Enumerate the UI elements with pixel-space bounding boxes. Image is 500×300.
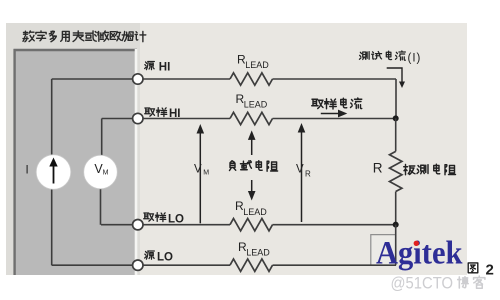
Agitek logo <box>376 236 463 272</box>
terminal sense LO <box>133 220 143 230</box>
terminal source LO <box>133 260 143 270</box>
title 数字多用表或微欧姆计 <box>23 31 146 42</box>
resistor R_LEAD 4 zigzag <box>230 259 273 271</box>
svg-text:V: V <box>194 164 202 176</box>
svg-text:M: M <box>203 169 209 176</box>
svg-text:LEAD: LEAD <box>246 247 270 257</box>
svg-text:M: M <box>103 170 109 177</box>
label 图 2 <box>468 262 494 279</box>
svg-text:R: R <box>305 170 311 179</box>
watermark @51CTO博客 <box>391 273 485 292</box>
wire current source branch <box>51 79 53 265</box>
svg-text:2: 2 <box>486 262 494 279</box>
meter panel background <box>6 23 140 275</box>
label 源LO <box>145 251 173 263</box>
sense current arrow <box>321 110 348 118</box>
svg-text:V: V <box>296 164 304 176</box>
measurement arrow VM <box>197 124 205 223</box>
svg-text:LEAD: LEAD <box>243 207 267 217</box>
label R_LEAD 3 <box>235 199 267 217</box>
wire sense HI row <box>102 118 396 120</box>
resistor R_LEAD 1 zigzag <box>230 73 273 85</box>
resistor R_LEAD 3 zigzag <box>230 219 273 231</box>
svg-text:(I): (I) <box>408 52 422 64</box>
label VM <box>194 164 209 177</box>
label 测试电流(I) <box>359 51 421 64</box>
label 取样电流 <box>312 98 362 109</box>
svg-text:HI: HI <box>159 62 171 74</box>
label 被测电阻 <box>404 164 456 175</box>
svg-text:I: I <box>26 165 29 177</box>
wire sense LO row <box>101 224 396 226</box>
label R_LEAD 2 <box>236 92 268 110</box>
lead resistance down arrow <box>248 180 256 201</box>
test current pointer arrow <box>387 68 405 88</box>
wire right vertical bottom <box>395 225 397 266</box>
terminal sense HI <box>133 113 143 123</box>
label I <box>26 165 29 177</box>
resistor R_LEAD 2 zigzag <box>230 112 273 124</box>
wire voltmeter branch <box>101 119 102 225</box>
svg-text:R: R <box>373 161 383 176</box>
wire right vertical top <box>395 79 397 118</box>
label 源HI <box>145 62 171 74</box>
node junction bottom <box>393 222 399 228</box>
lead resistance up arrow <box>248 130 256 155</box>
label R_LEAD 1 <box>237 53 269 71</box>
svg-text:LEAD: LEAD <box>244 100 268 110</box>
current source I <box>36 155 71 190</box>
node junction top <box>393 115 399 121</box>
wire to resistor R <box>395 118 397 151</box>
svg-text:LO: LO <box>157 252 173 264</box>
measurement arrow VR <box>298 123 306 222</box>
label 负载电阻 <box>230 161 278 172</box>
voltmeter VM <box>84 155 118 189</box>
resistor R vertical zigzag <box>390 151 402 191</box>
svg-text:Agitek: Agitek <box>376 236 463 272</box>
label R <box>373 161 383 176</box>
wire below resistor R <box>395 192 397 225</box>
circuit background <box>6 23 467 275</box>
terminal source HI <box>133 74 143 84</box>
label 取样HI <box>145 108 181 120</box>
wire source LO row <box>52 264 396 266</box>
label 取样LO <box>144 213 184 226</box>
wire source HI row <box>52 78 396 80</box>
meter inner gray box <box>14 49 138 275</box>
label VR <box>296 164 311 179</box>
svg-text:LEAD: LEAD <box>245 60 269 70</box>
svg-text:@51CTO: @51CTO <box>391 273 454 292</box>
svg-text:HI: HI <box>169 108 181 120</box>
logo corner box <box>371 235 396 266</box>
label R_LEAD 4 <box>238 240 270 257</box>
svg-text:LO: LO <box>168 214 184 226</box>
